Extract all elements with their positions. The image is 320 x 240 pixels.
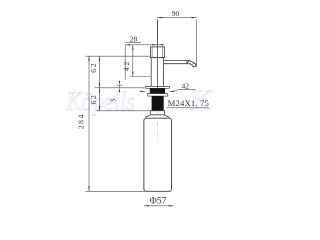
left extension top (cap bottom level) xyxy=(86,55,151,57)
svg-text:42: 42 xyxy=(122,60,131,71)
svg-text:Köpells: Köpells xyxy=(66,87,136,116)
dim 62 upper arrows xyxy=(99,56,101,88)
dim 3 arrows xyxy=(119,81,121,92)
flange lower lip xyxy=(148,94,168,97)
svg-text:62: 62 xyxy=(89,62,98,73)
bottle xyxy=(144,118,172,191)
dim 28 left extension xyxy=(124,46,126,80)
threaded shank M24 xyxy=(152,96,164,111)
dim 42 flange leader underline xyxy=(178,89,195,91)
svg-text:42: 42 xyxy=(182,82,190,91)
dim 28 underline xyxy=(126,41,141,43)
pump cap xyxy=(150,47,164,58)
flange upper lip xyxy=(145,86,169,88)
dim phi57 arrows xyxy=(144,205,174,207)
svg-text:90: 90 xyxy=(172,9,180,18)
dim 28 line xyxy=(125,44,157,46)
dim 284 arrows xyxy=(88,56,90,191)
dim 42 flange arrows xyxy=(140,90,145,92)
dim 28 opposing stub arrow xyxy=(158,44,164,46)
dim 3 short extension xyxy=(117,84,123,86)
bottle centerline xyxy=(156,111,158,142)
svg-text:62: 62 xyxy=(89,93,98,104)
watermark xyxy=(66,84,213,117)
dim 284 line xyxy=(88,56,90,191)
dim 62 lower arrows xyxy=(99,88,101,111)
dim 42 pump arrows xyxy=(132,45,134,77)
spout nozzle inner line xyxy=(192,63,194,65)
dim phi57 line xyxy=(144,205,174,207)
left extension bottle top xyxy=(97,110,150,112)
dim 90 arrows xyxy=(157,17,196,19)
svg-text:M24X1. 75: M24X1. 75 xyxy=(168,98,209,108)
dim 28 arrows xyxy=(125,44,157,46)
left extension middle boundary xyxy=(95,87,145,89)
spout arm xyxy=(164,60,189,63)
bottle shoulder xyxy=(146,115,170,118)
spout nozzle xyxy=(187,60,196,66)
pump centerline / 90-dim left extension xyxy=(156,19,158,88)
dim 42 pump bottom extension xyxy=(130,76,151,78)
flange black band xyxy=(150,88,165,93)
spout joint ticks xyxy=(187,60,190,63)
dim 62 lower line xyxy=(99,88,101,111)
dim 90 right extension xyxy=(195,19,197,67)
bottom extension (bottle bottom) xyxy=(86,190,145,192)
thread label underline xyxy=(167,107,209,109)
svg-text:Φ57: Φ57 xyxy=(150,195,167,206)
svg-text:284: 284 xyxy=(77,113,86,129)
svg-text:3: 3 xyxy=(108,99,117,103)
pump body xyxy=(151,58,163,87)
dim 42 pump vertical line xyxy=(132,45,134,77)
pump cap inner lines xyxy=(151,47,153,58)
dim 90 line xyxy=(157,17,196,19)
dim 62 upper line xyxy=(99,56,101,88)
bottle neck collar xyxy=(150,111,164,115)
pump centerline over shapes xyxy=(156,19,158,88)
